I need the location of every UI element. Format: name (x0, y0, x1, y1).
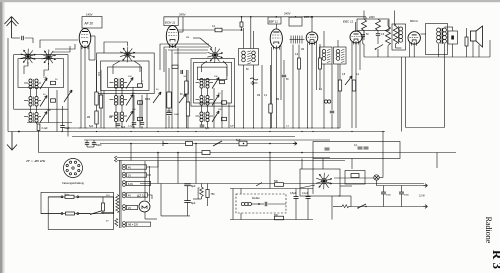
wire y127 return (406, 127, 445, 129)
svg-text:240V: 240V (284, 12, 291, 16)
band switch S1c (osc) (120, 47, 135, 63)
svg-text:5µF: 5µF (236, 138, 241, 142)
coil L3b (35, 113, 38, 123)
wire V4 anode to rail (311, 17, 313, 32)
tube V6 ECL11 (408, 32, 420, 46)
switch output stage (376, 45, 384, 50)
oscillator coil mid box (101, 61, 149, 91)
wire secondary d link (148, 195, 153, 199)
svg-text:1M: 1M (257, 95, 260, 97)
wire fan lines (300, 185, 315, 188)
wire choke leads (201, 184, 203, 188)
svg-text:0,5µF: 0,5µF (290, 192, 297, 195)
V3 label box (268, 17, 281, 24)
wire to band switch S1 (25, 38, 33, 43)
ground symbol (7, 132, 17, 151)
trimmer C2t (40, 96, 47, 107)
capacitor C2 plates (60, 126, 65, 128)
coil L8a (200, 96, 203, 106)
trimmer cap osc feed (240, 22, 243, 27)
terminal arrow bottom (424, 205, 428, 209)
IF transformer IFT1 box (239, 49, 259, 66)
svg-text:0,1µF: 0,1µF (42, 127, 49, 130)
capacitor in box (325, 148, 330, 150)
svg-text:2V: 2V (128, 174, 131, 177)
T2 enclosure (392, 24, 406, 50)
wire ECH11 feed drop (250, 17, 252, 49)
trimmer C4t (126, 78, 133, 89)
wire pickup bottom (230, 219, 313, 221)
pickup parts (258, 203, 260, 205)
resistor R10 (338, 80, 341, 91)
resistor R12 zigzag (362, 19, 367, 31)
coil det (324, 100, 330, 103)
switch on AVC (213, 141, 222, 146)
AF transformer T2 secondary (399, 27, 403, 42)
switch output (358, 204, 366, 208)
terminal bracket b (115, 159, 118, 162)
resistor R1b (95, 111, 98, 124)
padder C2p (51, 99, 56, 102)
svg-text:1M: 1M (301, 49, 304, 51)
coil L6a (114, 112, 117, 122)
wire T2 leads (395, 24, 397, 26)
selector terminal b (77, 213, 79, 215)
scan edge strip left (0, 0, 3, 273)
wire lamp riser (382, 132, 384, 178)
wire row link L5 (110, 99, 114, 101)
selector block (66, 212, 75, 215)
wire bus 3 (72, 136, 295, 138)
core L5 (118, 96, 120, 106)
wire V1 right lead (90, 35, 95, 37)
resistor osc grid (167, 92, 172, 108)
trimmer osc 2 (179, 94, 186, 103)
coil L7a (200, 79, 203, 89)
V2 label box (164, 17, 178, 26)
wire cap mains (102, 197, 104, 203)
wire row link L9 (196, 115, 200, 117)
trimmer C8t (212, 95, 219, 106)
resistor zigzag heater (342, 205, 349, 208)
secondary winding d (123, 192, 148, 198)
trimmer C5t (126, 95, 133, 106)
svg-text:100: 100 (97, 72, 100, 77)
core L9 (204, 112, 206, 122)
transformer primary zigzag (116, 195, 119, 213)
svg-text:2M: 2M (186, 37, 189, 39)
wire fan S1b links (44, 63, 49, 76)
wire cluster A sub-bus (27, 122, 72, 124)
resistor R11 (352, 80, 355, 91)
padder C8p (222, 101, 227, 104)
resistor R5 (186, 102, 189, 116)
wire antenna cluster vertical left (7, 38, 9, 132)
core L3 (33, 113, 35, 123)
mains terminal b (77, 196, 79, 198)
resistor V4 feed box (289, 17, 302, 26)
wire C1 lead (38, 131, 40, 132)
trimmer arrow tone (345, 76, 352, 85)
tube socket diagram (64, 159, 83, 178)
band switch S1d (mixer) (207, 47, 222, 63)
svg-text:12 W: 12 W (419, 195, 425, 198)
svg-text:5µF: 5µF (205, 127, 210, 130)
component 5uF box (239, 141, 247, 146)
svg-text:1M: 1M (109, 117, 112, 119)
wire V3 leads (271, 47, 273, 128)
wire cap heater a (86, 140, 88, 143)
resistor R1a (95, 92, 98, 105)
svg-text:140V: 140V (86, 13, 93, 17)
wire V2 leads (165, 49, 167, 128)
AF transformer T2 primary zigzag (393, 26, 397, 44)
coil L9a (200, 112, 203, 122)
capacitor C8 (330, 111, 334, 113)
transformer core (119, 160, 121, 228)
resistor ECH plate (172, 65, 178, 68)
wire bus 4 (84, 139, 330, 141)
wire resistor osc grid (168, 68, 170, 92)
svg-text:EBC 11: EBC 11 (343, 20, 353, 24)
wire row link L4 (110, 82, 114, 84)
terminal bracket a (115, 156, 118, 159)
wire R12 (363, 11, 365, 20)
resistor R7 (269, 104, 272, 113)
trimmer arrow padding osc (153, 92, 161, 103)
wire antenna lead (12, 37, 21, 39)
wire pickup top (230, 188, 313, 190)
wire C2 leads (62, 124, 64, 126)
resistor R8 (298, 58, 301, 69)
wire jack leads (452, 44, 454, 57)
resistor R14 zigzag tall (386, 26, 391, 45)
svg-text:5000: 5000 (145, 99, 151, 101)
svg-text:EBF 11: EBF 11 (269, 19, 279, 23)
core L4 (118, 79, 120, 89)
connector symbol (163, 141, 168, 146)
detector mark (250, 78, 258, 85)
secondary winding a (123, 164, 147, 170)
wire rectifier leads (144, 161, 146, 200)
wire x405 riser (405, 57, 407, 128)
wire V1 leads (80, 46, 82, 128)
svg-text:2V: 2V (128, 207, 131, 210)
mixer coil outer box (191, 59, 235, 106)
wire fan S4 diagonal (200, 38, 212, 48)
wire secondary a link (147, 161, 159, 167)
resistor R15 (275, 183, 284, 187)
wire mixer cluster verticals (201, 88, 203, 95)
svg-text:AF 10: AF 10 (84, 22, 94, 26)
capacitor C5 (140, 123, 144, 125)
IF transformer IFT2b box (334, 47, 347, 64)
trimmer C6t (126, 111, 133, 122)
wire V3 anode to rail (275, 24, 277, 29)
core L2 (33, 97, 35, 107)
transformer lower zigzag (115, 218, 118, 226)
wire ground bus (64, 127, 340, 129)
wire T3 leads (438, 44, 440, 57)
wire speaker leads (472, 41, 474, 57)
headphone jack box (448, 31, 458, 44)
wire row link L8 (196, 99, 200, 101)
wire fan S1c feed (104, 42, 128, 53)
resistor R16 (275, 216, 284, 220)
wire V2 anode to rail (172, 24, 174, 27)
oscillator coil inner box (108, 67, 142, 87)
wire R13 (377, 31, 379, 33)
wire R14 (387, 20, 389, 26)
wire bottom terminal line (351, 206, 424, 208)
pickup coil (241, 202, 251, 205)
svg-text:Fassungsschaltung: Fassungsschaltung (62, 182, 84, 185)
wire switch lead (350, 196, 352, 207)
junction dots avc (130, 143, 132, 145)
IFT1 secondary (252, 51, 256, 62)
switch voltage selector (90, 211, 101, 215)
wire +HT rail (164, 16, 366, 18)
wire fan S1d links (202, 61, 208, 72)
oscillator coil outer box (97, 53, 155, 94)
wire selector row (41, 213, 61, 215)
resistor V2 screen (215, 28, 222, 32)
wire row link L2 (24, 100, 28, 102)
capacitor mains (102, 203, 105, 211)
capacitor cluster C bus (200, 125, 205, 127)
trimmer C7t (212, 78, 219, 89)
T3 core (440, 28, 442, 44)
svg-text:5000: 5000 (386, 195, 392, 197)
loudspeaker (471, 26, 483, 47)
svg-text:5000: 5000 (174, 114, 180, 116)
capacitor on AVC (186, 142, 193, 146)
wire V6 leads (413, 44, 415, 57)
wire heater left stub (333, 206, 342, 208)
svg-text:2M: 2M (87, 117, 90, 119)
capacitor osc grid (167, 113, 172, 115)
wire secondary b link (147, 174, 152, 176)
svg-text:8µF: 8µF (191, 184, 196, 188)
antenna (5, 17, 19, 39)
fuse (65, 195, 74, 198)
wire osc cluster verticals (115, 88, 117, 95)
resistor speaker (465, 37, 468, 46)
coil L1b (35, 79, 38, 89)
IF filter ladder (290, 36, 305, 44)
wire row link L3 (24, 116, 28, 118)
wire vertical x270 (269, 153, 271, 189)
resistor R2 (99, 95, 102, 108)
capacitor ECH (181, 70, 183, 74)
wire T3 secondary down (444, 50, 446, 128)
switch heater line (256, 183, 262, 187)
terminal arrow AVC (293, 142, 297, 146)
wire tone box drop (331, 196, 333, 220)
wire R13 lower (377, 36, 379, 44)
padder C5p (138, 101, 143, 104)
padder C6p (138, 117, 143, 120)
V1 label box (82, 17, 102, 29)
component in box (351, 174, 359, 178)
tube V7 AZ11 rectifier (139, 201, 150, 212)
tone switch box (300, 169, 340, 196)
svg-text:5000: 5000 (404, 195, 410, 197)
antenna coil outer box (14, 55, 68, 109)
wire fan S1a links (24, 62, 28, 74)
wire vertical x352 (351, 159, 353, 170)
selector terminal a (61, 213, 63, 215)
wire fan S1c links (113, 61, 120, 74)
wire V5 anode riser (354, 22, 356, 32)
wire screen line (177, 29, 215, 31)
core L7 (204, 79, 206, 89)
wire V5 leads (351, 42, 353, 128)
secondary winding e (123, 205, 138, 211)
wire lamp right link (379, 177, 383, 179)
pickup box dashed (236, 194, 286, 213)
coil L7b (206, 79, 209, 89)
svg-text:0,1µF: 0,1µF (302, 192, 309, 195)
wire line y157 (117, 157, 330, 159)
wire resistor speaker (466, 28, 468, 37)
wire cap heater b (93, 140, 95, 143)
wire AVC line (100, 143, 297, 145)
capacitor heater b (92, 143, 96, 145)
coil L8b (206, 96, 209, 106)
tube V5 EBC11 (350, 31, 362, 45)
tube V2 ECH11 (166, 26, 178, 49)
wire V6 to T2 (421, 33, 427, 35)
wire lamp to terminal line (377, 180, 425, 185)
IFT2 primary (322, 50, 326, 61)
capacitor C7 (292, 45, 294, 129)
component row1 mixer (220, 80, 225, 83)
trimmer C9t (212, 111, 219, 122)
svg-text:6,3V: 6,3V (128, 183, 133, 186)
tube V1 EF13 (79, 28, 91, 49)
padder C9p (222, 117, 227, 120)
resistor bleeder (206, 190, 209, 198)
trimmer C3t (40, 112, 47, 123)
svg-text:4V: 4V (128, 166, 131, 169)
choke zigzag (200, 187, 204, 197)
IF transformer IFT2 box (320, 47, 333, 64)
coil L4a (114, 79, 117, 89)
jack inner (451, 36, 454, 40)
junction osc feed (241, 29, 243, 31)
coil L2b (35, 97, 38, 107)
wire pickup verticals (232, 189, 234, 220)
capacitor C9b (376, 34, 380, 36)
svg-text:Drehko: Drehko (252, 197, 260, 200)
wire row link L6 (110, 115, 114, 117)
capacitor antenna coupling (22, 36, 24, 40)
band switch S1b (41, 50, 55, 65)
svg-text:5µF: 5µF (230, 126, 234, 128)
wire psu bottom link (161, 215, 190, 217)
terminal arrow top (424, 184, 428, 188)
wire V6 anode riser (394, 11, 396, 27)
wire V4 leads (307, 43, 309, 129)
winding banner AB (123, 222, 151, 228)
wire speaker return (489, 40, 491, 57)
coil L4b (120, 79, 123, 89)
wire R1 column (96, 60, 98, 92)
padder C4p (138, 84, 143, 87)
mains terminal a (61, 196, 63, 198)
IFT2 secondary (336, 50, 340, 61)
tube V3 EBF11 (270, 29, 282, 50)
wire output stage bottom bus (364, 56, 490, 58)
wire bleeder (207, 184, 209, 190)
wire row link L1 (24, 82, 28, 84)
wire psu left riser (160, 184, 162, 216)
wire x401 riser (401, 57, 403, 132)
power unit box (41, 192, 114, 213)
capacitor 8uF a (184, 184, 191, 186)
svg-text:0,1µF: 0,1µF (128, 126, 134, 128)
wire fan S4 nested links (160, 44, 209, 70)
capacitor C11 (306, 197, 311, 199)
mixer coil mid box (194, 62, 232, 103)
capacitor in box c (364, 147, 369, 149)
svg-text:4V: 4V (128, 194, 131, 197)
tube V4 EBF11 diode (306, 32, 318, 45)
core L1 (33, 79, 35, 89)
capacitor 8uF b (184, 201, 191, 203)
wire IFT1 leads (243, 28, 245, 49)
coil L3a (29, 113, 32, 123)
junction heater (18, 131, 20, 133)
wire selector to winding (101, 212, 114, 214)
coil L9b (206, 112, 209, 122)
svg-text:R 3: R 3 (490, 250, 500, 270)
capacitor cluster B bus (116, 124, 121, 126)
coil L6b (120, 112, 123, 122)
coil L5a (114, 96, 117, 106)
output transformer enclosure (426, 24, 448, 55)
wire resistor osc anode (186, 70, 188, 81)
wire y152 left riser (38, 132, 40, 153)
resistor osc anode (185, 81, 189, 94)
wire V2 anode stub (178, 31, 183, 33)
wire mains top row (48, 196, 61, 198)
capacitor C12 (381, 192, 386, 194)
svg-text:240V: 240V (369, 16, 375, 19)
wire bus 2 (8, 131, 385, 133)
wire filter caps (187, 183, 189, 185)
svg-text:5µF: 5µF (121, 126, 126, 129)
svg-text:8µF: 8µF (191, 201, 196, 205)
band switch S1a (21, 49, 36, 65)
coil L5b (120, 96, 123, 106)
wire verticals to bottom (130, 144, 132, 161)
wire y152 right stub (436, 153, 438, 169)
IFT2b core (341, 49, 344, 62)
wire fan S2 link a (52, 46, 70, 52)
dial lamp (374, 175, 379, 180)
wire row link L7 (196, 82, 200, 84)
capacitor heater a (85, 143, 89, 145)
wire osc grid cap lead (168, 116, 170, 129)
secondary winding b (123, 172, 147, 178)
capacitor in box b (358, 147, 363, 149)
resistor on y152 (202, 151, 210, 155)
antenna coil inner box (18, 59, 64, 88)
capacitor C13 (399, 192, 404, 194)
wire fan S2 link b (55, 44, 75, 49)
